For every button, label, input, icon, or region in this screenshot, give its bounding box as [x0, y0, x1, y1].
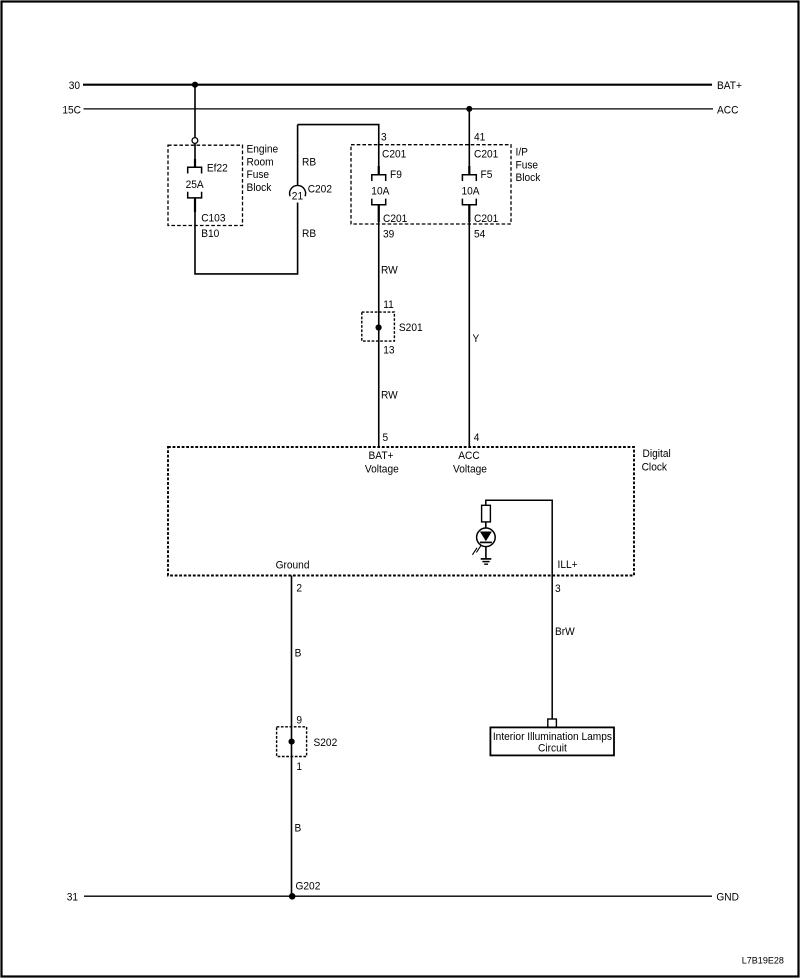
svg-text:RB: RB: [302, 156, 316, 169]
svg-text:S201: S201: [399, 322, 423, 335]
svg-text:C103: C103: [201, 212, 225, 225]
svg-text:13: 13: [383, 344, 394, 357]
svg-text:11: 11: [383, 299, 394, 312]
svg-text:25A: 25A: [186, 179, 205, 192]
svg-text:I/P: I/P: [516, 146, 528, 159]
svg-text:15C: 15C: [62, 104, 81, 117]
svg-text:BrW: BrW: [555, 626, 576, 639]
svg-text:21: 21: [292, 190, 303, 203]
svg-text:Engine: Engine: [247, 143, 279, 156]
svg-text:3: 3: [381, 131, 387, 144]
svg-text:B: B: [295, 647, 302, 660]
svg-text:L7B19E28: L7B19E28: [742, 956, 784, 966]
svg-text:B10: B10: [201, 228, 219, 241]
svg-text:2: 2: [296, 582, 302, 595]
svg-text:Block: Block: [516, 172, 541, 185]
svg-text:C201: C201: [382, 148, 406, 161]
svg-text:C201: C201: [474, 213, 498, 226]
svg-text:S202: S202: [314, 737, 338, 750]
svg-text:GND: GND: [716, 891, 739, 904]
svg-text:Fuse: Fuse: [516, 159, 539, 172]
svg-text:ACC: ACC: [458, 450, 480, 463]
svg-text:RW: RW: [381, 264, 399, 277]
svg-text:39: 39: [383, 228, 394, 241]
svg-text:BAT+: BAT+: [369, 450, 394, 463]
svg-text:Y: Y: [473, 333, 480, 346]
svg-text:ILL+: ILL+: [558, 559, 578, 572]
svg-text:F5: F5: [481, 169, 493, 182]
svg-text:30: 30: [69, 80, 80, 93]
svg-text:Room: Room: [247, 156, 274, 169]
svg-text:Digital: Digital: [643, 448, 671, 461]
svg-text:RB: RB: [302, 228, 316, 241]
svg-text:41: 41: [474, 131, 485, 144]
svg-text:10A: 10A: [371, 185, 390, 198]
svg-text:Voltage: Voltage: [453, 463, 487, 476]
svg-text:F9: F9: [390, 169, 402, 182]
svg-text:Voltage: Voltage: [365, 463, 399, 476]
svg-text:C201: C201: [383, 213, 407, 226]
svg-text:4: 4: [474, 432, 480, 445]
svg-text:G202: G202: [296, 880, 321, 893]
svg-text:9: 9: [296, 714, 302, 727]
svg-text:1: 1: [296, 761, 302, 774]
svg-text:Fuse: Fuse: [247, 169, 270, 182]
svg-text:ACC: ACC: [717, 104, 739, 117]
svg-text:C201: C201: [474, 148, 498, 161]
svg-text:5: 5: [383, 432, 389, 445]
svg-text:54: 54: [474, 228, 485, 241]
svg-text:Circuit: Circuit: [538, 742, 567, 755]
svg-text:Ground: Ground: [276, 559, 310, 572]
svg-text:C202: C202: [308, 183, 332, 196]
svg-text:Ef22: Ef22: [207, 162, 228, 175]
svg-text:31: 31: [67, 891, 78, 904]
svg-text:Clock: Clock: [642, 461, 668, 474]
svg-text:B: B: [295, 822, 302, 835]
svg-text:3: 3: [555, 583, 561, 596]
svg-text:Block: Block: [247, 181, 272, 194]
svg-text:RW: RW: [381, 389, 399, 402]
svg-text:BAT+: BAT+: [717, 80, 742, 93]
svg-text:10A: 10A: [462, 185, 481, 198]
